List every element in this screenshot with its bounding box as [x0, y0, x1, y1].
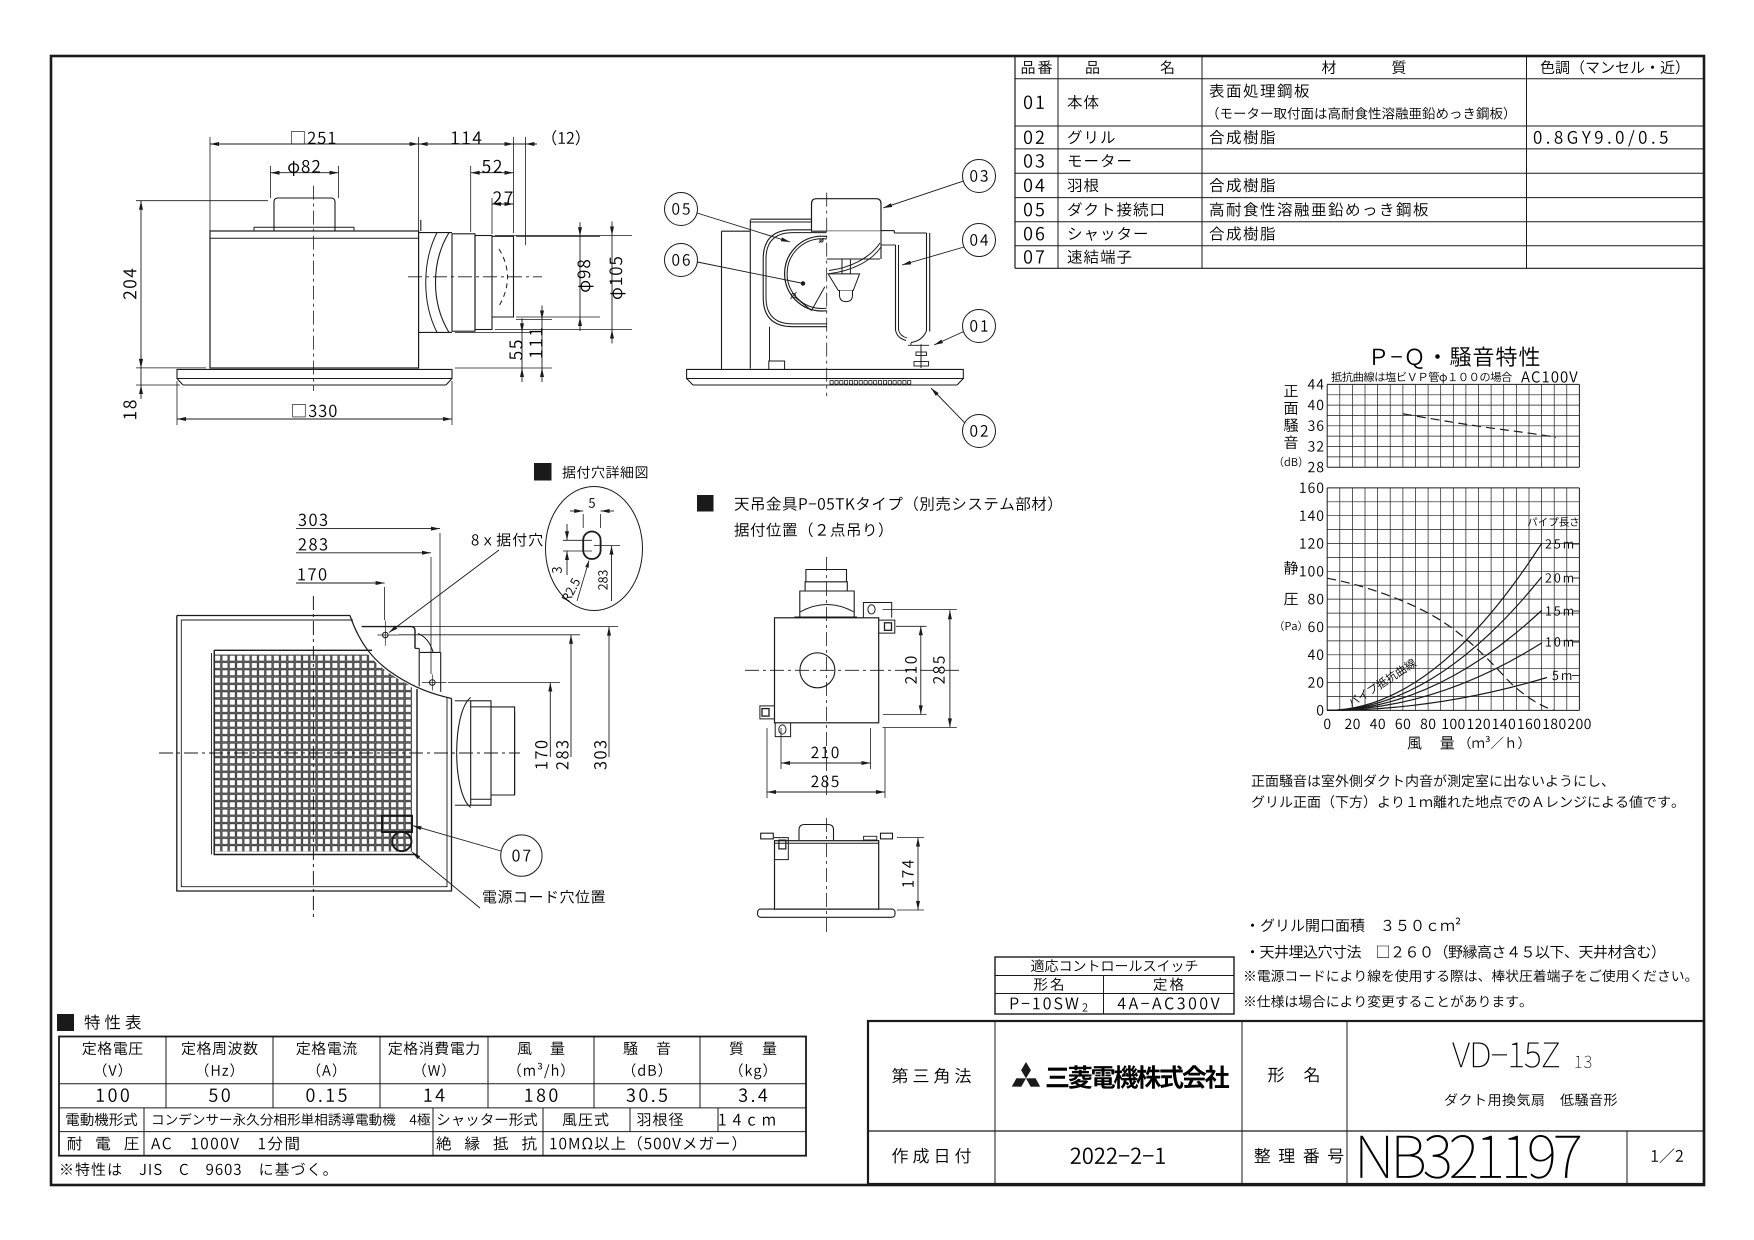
note ceiling hole	[1251, 950, 1254, 953]
PQ x tick 140	[1493, 719, 1499, 729]
PQ x tick 60	[1396, 719, 1402, 730]
hanger side duct stub	[799, 825, 834, 841]
note power cord	[1245, 971, 1255, 981]
PQ x tick 180	[1543, 719, 1549, 729]
PQ top noise curve	[1403, 414, 1556, 438]
PQ top tick 44	[1308, 379, 1315, 389]
callout 03 motor	[963, 160, 996, 193]
hanger plan duct stub	[800, 591, 854, 618]
hanger dim 210 h	[781, 762, 871, 764]
detail balloon ellipse	[546, 487, 643, 611]
spec header 定格電流	[296, 1041, 310, 1055]
side view motor cap	[274, 198, 335, 231]
PQ bottom axis Pa	[1281, 621, 1284, 631]
cross-section motor body section	[827, 231, 881, 259]
cross-section shutter wall	[881, 244, 896, 246]
hanger dim 210 v	[920, 626, 922, 714]
hanger note square	[697, 495, 714, 512]
PQ bottom tick 20	[1308, 677, 1314, 687]
PQ bottom tick 40	[1308, 650, 1315, 660]
control switch header	[1031, 959, 1044, 972]
PQ top axis label 音	[1284, 435, 1297, 449]
parts row 07 number	[1024, 250, 1032, 264]
front view bracket edges	[362, 626, 618, 628]
spec row4 絶縁抵抗	[436, 1136, 450, 1150]
dim φ98	[579, 236, 581, 317]
title block grid	[868, 1021, 1704, 1184]
callout 06 fan blade	[665, 244, 698, 277]
front view body cutaway curve	[350, 616, 452, 699]
PQ top axis label 騒	[1284, 419, 1298, 432]
front view duct pipe	[491, 707, 515, 795]
spec value 14	[425, 1089, 432, 1102]
dim 114	[419, 143, 514, 145]
callout 02 grille	[963, 415, 996, 448]
hanger side body	[775, 841, 879, 909]
PQ top tick 32	[1308, 441, 1314, 452]
hanger side bracket	[774, 838, 788, 860]
hanger plan center circle	[800, 653, 835, 688]
side view ceiling flange	[177, 369, 452, 378]
parts row 01 number	[1024, 95, 1032, 109]
hanger side flange	[758, 909, 895, 917]
control switch P-10SW2	[1011, 998, 1019, 1010]
side view centerline horizontal	[408, 276, 542, 278]
parts row 02 color	[1534, 131, 1542, 144]
spec value 180	[525, 1089, 532, 1102]
spec header 質量	[730, 1041, 744, 1055]
front view duct ring	[471, 701, 491, 805]
PQ x tick 0	[1324, 719, 1330, 730]
Mitsubishi logo diamonds	[1021, 1062, 1031, 1078]
front view dim 170 top	[296, 582, 385, 584]
spec row3 羽根径	[637, 1113, 650, 1126]
PQ label 5m	[1552, 671, 1558, 680]
dim 52	[471, 172, 514, 174]
hanger plan body	[775, 618, 879, 723]
parts row 02 name	[1068, 130, 1082, 144]
PQ pipe curve 15m	[1327, 611, 1541, 711]
hanger plan centerline v	[826, 557, 828, 795]
spec row4 insulation	[550, 1138, 556, 1149]
control switch 定格	[1154, 978, 1167, 991]
PQ pipe curve 5m	[1327, 678, 1547, 711]
side view duct ring2	[475, 236, 492, 330]
front view centerline h	[159, 752, 520, 754]
PQ note line2	[1252, 795, 1265, 808]
title block date	[1071, 1148, 1081, 1164]
PQ pipe curve 10m	[1327, 643, 1541, 710]
dim φ82	[271, 172, 339, 174]
cross-section ceiling flange	[687, 369, 964, 378]
spec header 風量	[518, 1042, 532, 1055]
parts row 03 name	[1069, 156, 1081, 167]
parts table grid	[1015, 55, 1704, 57]
control switch rating	[1118, 998, 1126, 1010]
detail dim 5	[570, 510, 583, 512]
spec note JIS	[61, 1164, 72, 1175]
cross-section housing left wall	[721, 231, 723, 369]
hanger side rail	[761, 833, 774, 839]
spec header 定格周波数	[182, 1041, 196, 1055]
title block number NB321197	[1360, 1136, 1388, 1178]
PQ top axis label dB	[1281, 457, 1284, 467]
parts table header 品名	[1086, 61, 1099, 74]
front view mesh	[214, 655, 412, 852]
control switch 形名	[1034, 978, 1047, 991]
spec row4 AC1000V	[151, 1138, 160, 1149]
cross-section orifice curves	[829, 243, 880, 271]
hanger dim 285 h	[767, 791, 885, 793]
parts table header 色調	[1541, 60, 1555, 74]
cross-section scroll rounded duct	[763, 230, 827, 327]
PQ x tick 120	[1468, 719, 1474, 729]
side view centerline vertical	[312, 186, 314, 391]
PQ top tick 40	[1308, 400, 1315, 410]
PQ x axis title	[1408, 737, 1422, 750]
front view power cord rect	[382, 816, 412, 832]
parts row 01 name	[1068, 95, 1083, 109]
parts row 04 number	[1024, 178, 1032, 192]
Mitsubishi company name	[1047, 1068, 1069, 1088]
spec value 100	[97, 1089, 104, 1102]
side view duct ring	[452, 234, 475, 331]
spec header 定格電圧	[82, 1041, 96, 1055]
side view duct bellmouth	[420, 220, 422, 231]
control switch table grid	[995, 957, 1234, 1014]
spec table grid	[59, 1037, 806, 1156]
PQ top axis label 正	[1284, 385, 1297, 397]
parts row 06 name	[1069, 228, 1081, 240]
spec value 3.4	[739, 1088, 747, 1102]
hanger plan centerline h	[745, 669, 962, 671]
hanger dim 174	[917, 838, 919, 911]
PQ x tick 80	[1421, 719, 1427, 730]
spec value 30.5	[627, 1088, 635, 1102]
detail slot hole	[583, 532, 600, 560]
PQ top axis label 面	[1284, 402, 1297, 415]
dim 27	[492, 203, 514, 205]
cross-section centerline	[826, 193, 828, 396]
PQ x tick 160	[1518, 719, 1524, 729]
PQ label 15m	[1546, 606, 1551, 615]
PQ bottom tick 60	[1308, 622, 1314, 633]
spec row3 14cm	[719, 1114, 725, 1126]
PQ x tick 40	[1370, 719, 1377, 729]
side view main body	[210, 231, 419, 368]
front view dim 303 top	[296, 528, 440, 530]
parts row 06 number	[1024, 227, 1032, 241]
cross-section housing top right	[881, 230, 894, 232]
PQ label 25m	[1546, 539, 1552, 548]
PQ note line1	[1252, 775, 1265, 786]
PQ label 10m	[1546, 637, 1551, 646]
dim □330	[177, 418, 452, 420]
cross-section fan blade edge	[795, 297, 812, 311]
front view duct bellmouth	[457, 698, 471, 808]
PQ chart AC100V	[1521, 371, 1530, 382]
spec row3 シャッター形式	[438, 1114, 450, 1125]
front view mounting hole top	[383, 632, 389, 638]
PQ pipe curve 20m	[1327, 577, 1541, 710]
parts row 01 material line2	[1215, 107, 1218, 120]
spec row3 風圧式	[563, 1113, 577, 1126]
title block model VD-15Z	[1452, 1043, 1470, 1068]
spec row4 耐電圧	[68, 1136, 82, 1150]
front view dim 283 right	[570, 635, 572, 757]
PQ top tick 28	[1308, 462, 1314, 472]
PQ bottom tick 100	[1300, 566, 1306, 576]
title block model desc	[1445, 1093, 1457, 1106]
parts row 02 material	[1210, 130, 1225, 144]
spec header 定格消費電力	[388, 1041, 402, 1055]
PQ bottom tick 160	[1300, 483, 1306, 493]
dim 204	[140, 201, 142, 368]
front view dim 283 top	[296, 552, 431, 554]
front view label 電源コード穴位置	[483, 890, 496, 903]
side view duct pipe	[492, 236, 514, 317]
spec header 騒音	[623, 1042, 637, 1055]
PQ bottom axis 圧	[1284, 593, 1298, 606]
detail label R2.5	[561, 577, 580, 602]
spec row3 motor type	[153, 1115, 162, 1124]
spec row3 電動機形式	[66, 1113, 79, 1126]
PQ pipe curve 25m	[1327, 544, 1541, 711]
spec value 0.15	[306, 1088, 314, 1102]
note spec change	[1245, 996, 1255, 1006]
front view grille inner edge	[181, 620, 447, 887]
spec value 50	[209, 1089, 217, 1102]
parts table header 品番	[1022, 61, 1035, 74]
parts row 04 material	[1210, 178, 1225, 192]
PQ bottom tick 80	[1308, 594, 1314, 605]
parts row 03 number	[1024, 154, 1032, 168]
front view dim 303 right	[608, 627, 610, 757]
title block 第三角法	[892, 1068, 908, 1084]
PQ bottom tick 140	[1300, 511, 1306, 521]
callout 04 blade pointer	[963, 224, 996, 257]
PQ label 20m	[1546, 573, 1552, 582]
PQ x tick 100	[1443, 719, 1449, 729]
parts table header 材質	[1322, 60, 1336, 74]
title block 形名	[1268, 1067, 1284, 1082]
cross-section bellmouth circle	[785, 236, 860, 311]
detail title square	[534, 463, 552, 481]
PQ bottom axis 静	[1284, 561, 1298, 575]
dim 55	[521, 332, 523, 368]
PQ bottom tick 0	[1317, 705, 1323, 716]
title block 整理番号	[1254, 1148, 1270, 1163]
front view power cord circle	[392, 832, 411, 851]
callout 07 terminal	[501, 835, 542, 876]
parts row 01 material line1	[1209, 84, 1224, 98]
hanger side centerline	[826, 818, 828, 935]
parts row 02 number	[1024, 130, 1032, 144]
PQ top chart grid	[1326, 384, 1328, 467]
spec table title	[57, 1014, 74, 1031]
PQ x tick 200	[1568, 719, 1574, 729]
front view dim 170 right	[549, 683, 551, 758]
PQ label パイプ抵抗曲線	[1347, 657, 1417, 708]
PQ top tick 36	[1308, 420, 1314, 431]
detail dim 3 lines	[563, 539, 592, 541]
hanger plan bracket bottom-left	[760, 706, 775, 719]
PQ x tick 20	[1345, 719, 1351, 729]
front view grille outer square	[177, 616, 452, 892]
parts row 05 number	[1024, 203, 1032, 217]
cross-section fastener	[920, 344, 922, 368]
cross-section motor top cap	[812, 199, 882, 232]
PQ label パイプ長さ	[1528, 517, 1537, 525]
cross-section left bracket	[769, 361, 785, 369]
hanger note line2	[734, 523, 748, 537]
front view label 8x据付穴	[472, 534, 479, 545]
title block 作成日付	[892, 1148, 908, 1164]
parts row 05 name	[1068, 202, 1082, 216]
title block page 1/2	[1652, 1150, 1658, 1162]
detail title text	[562, 466, 575, 479]
note grille area	[1251, 924, 1254, 927]
callout 05 duct adapter	[665, 193, 698, 226]
dim □251	[210, 143, 419, 145]
callout 01 body	[963, 310, 996, 343]
front view centerline v	[312, 596, 314, 920]
PQ chart subtitle	[1331, 372, 1342, 382]
dim 111	[541, 320, 543, 369]
front view grille recess frame	[214, 650, 417, 854]
dim φ105	[611, 236, 613, 330]
PQ chart title	[1373, 349, 1385, 365]
PQ bottom chart grid	[1326, 488, 1328, 711]
front view mounting hole right	[430, 680, 436, 686]
hanger dim 285 v	[949, 610, 951, 727]
parts row 06 material	[1210, 226, 1225, 240]
PQ bottom tick 120	[1300, 538, 1306, 548]
parts row 04 name	[1068, 179, 1081, 192]
parts row 07 name	[1068, 250, 1082, 264]
dim 18	[140, 368, 142, 385]
dim (12)	[514, 143, 538, 145]
detail dim 283	[611, 546, 613, 601]
detail dim 3	[566, 524, 568, 540]
cross-section shutter comb	[830, 381, 833, 385]
hanger note line1	[735, 498, 749, 511]
parts row 05 material	[1210, 202, 1223, 216]
PQ resistance curve dashed	[1327, 578, 1554, 710]
cross-section blade screw detail	[792, 294, 796, 298]
hanger plan bracket top-right	[863, 603, 891, 618]
